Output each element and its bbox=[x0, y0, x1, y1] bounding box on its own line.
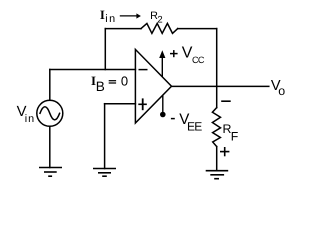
svg-text:o: o bbox=[278, 84, 285, 98]
op-amp U1 triangle bbox=[135, 49, 171, 123]
source Vin circle bbox=[37, 100, 63, 126]
resistor RF bbox=[212, 108, 220, 147]
ground (RF bottom) bbox=[206, 171, 229, 179]
svg-text:CC: CC bbox=[192, 55, 205, 65]
svg-text:0: 0 bbox=[121, 74, 128, 89]
wire output node to RF bbox=[216, 86, 218, 107]
op-amp plus input mark bbox=[138, 98, 147, 110]
svg-text:in: in bbox=[25, 113, 35, 125]
svg-text:F: F bbox=[231, 130, 239, 144]
label RF polarity minus bbox=[221, 100, 231, 102]
wire top feedback horizontal left bbox=[105, 28, 141, 30]
wire middle ground vertical bbox=[104, 104, 106, 169]
svg-text:2: 2 bbox=[157, 15, 162, 26]
wire RF to ground bbox=[216, 147, 218, 171]
wire inverting input bbox=[50, 69, 136, 71]
svg-text:B: B bbox=[96, 79, 105, 94]
VCC supply arrow bbox=[161, 57, 163, 78]
svg-text:in: in bbox=[105, 13, 117, 25]
op-amp minus input mark bbox=[139, 69, 148, 71]
svg-text:EE: EE bbox=[187, 119, 202, 133]
wire non-inverting input bbox=[105, 103, 136, 105]
label + VCC plus sign bbox=[170, 50, 178, 57]
svg-text:I: I bbox=[100, 8, 105, 22]
wire Vin source bottom bbox=[49, 126, 51, 167]
Iin current arrow bbox=[120, 15, 137, 17]
wire top feedback horizontal right bbox=[178, 28, 217, 30]
label - VEE minus sign bbox=[171, 118, 175, 120]
wire output bbox=[172, 85, 269, 87]
source Vin sine bbox=[40, 107, 60, 120]
resistor R2 bbox=[141, 23, 178, 33]
label RF polarity plus bbox=[220, 147, 229, 156]
label = 0 bbox=[109, 81, 116, 83]
wire feedback vertical bbox=[104, 29, 106, 70]
wire right vertical R2 to output node bbox=[216, 29, 218, 87]
VEE supply stub and dot bbox=[162, 95, 164, 115]
ground (middle, non-inverting input) bbox=[93, 169, 116, 177]
ground (Vin) bbox=[39, 168, 62, 177]
wire Vin source top bbox=[49, 70, 51, 101]
